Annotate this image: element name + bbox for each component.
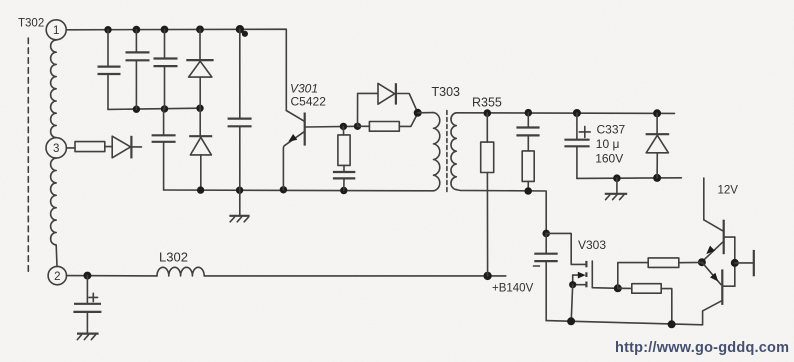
capacitor below mid rail — [152, 109, 176, 190]
wire L302 to B140V — [204, 275, 506, 277]
svg-text:12V: 12V — [718, 185, 739, 197]
svg-text:V303: V303 — [578, 238, 606, 252]
wire secondary bottom to gate node — [456, 190, 546, 234]
svg-text:T303: T303 — [432, 85, 461, 99]
node dot resistor junction — [614, 284, 622, 292]
node dot bottom rail b — [236, 187, 243, 194]
MOSFET V303 gate path — [546, 233, 586, 267]
node dot V301 base b — [354, 123, 361, 130]
resistor at pin 3 — [66, 142, 112, 152]
resistor lower horizontal — [618, 284, 672, 325]
transformer T303 primary winding — [434, 113, 440, 191]
T302 winding upper (pin1 to pin3) — [51, 40, 57, 138]
node dot mid rail c — [196, 105, 203, 112]
node dot T303 primary top — [414, 109, 422, 117]
filter capacitor 3 — [154, 30, 178, 109]
diode secondary rail — [646, 113, 670, 178]
svg-text:2: 2 — [54, 271, 60, 283]
wire to T303 primary — [418, 112, 434, 114]
resistor at V301 base — [338, 126, 350, 171]
node dot secondary top b — [525, 109, 533, 117]
diode D3 (parallel damper) — [378, 83, 418, 112]
diode D1 (upper rectifier) — [186, 29, 213, 108]
node dot secondary top a — [484, 109, 492, 117]
svg-text:http://www.go-gddq.com: http://www.go-gddq.com — [615, 340, 789, 356]
node dot bottom rail c (V301 emitter) — [280, 186, 287, 193]
resistor upper horizontal — [618, 258, 702, 288]
ground symbol 1 — [229, 216, 249, 222]
T302 core dashed line — [27, 38, 29, 273]
ground symbol 3 — [77, 334, 99, 340]
T302 winding lower (pin3 to pin2) — [51, 158, 57, 266]
T302 terminal 1 — [46, 20, 66, 40]
node dot top rail e — [236, 25, 244, 33]
diode D2 (lower rectifier) — [189, 108, 212, 190]
transistor V301 — [283, 111, 357, 190]
svg-text:C337: C337 — [597, 122, 626, 136]
svg-text:C5422: C5422 — [291, 95, 327, 109]
filter capacitor 2 — [126, 30, 150, 110]
MOSFET V303 drain connection — [592, 261, 618, 288]
transistor Q lower — [702, 262, 735, 305]
node dot at B140V — [483, 272, 491, 280]
node dot at diode bottom — [653, 174, 661, 182]
inductor L302 — [157, 267, 204, 276]
12V supply line — [703, 178, 705, 220]
ink blotch dot — [242, 31, 248, 37]
svg-text:3: 3 — [53, 143, 59, 155]
node dot at pin2 — [83, 272, 91, 280]
node dot bases — [731, 259, 739, 267]
capacitor at MOSFET gate branch — [534, 233, 558, 320]
svg-text:+B140V: +B140V — [492, 283, 534, 295]
diode at pin 3 — [112, 136, 141, 159]
node dot at ground stem — [613, 174, 621, 182]
transistor bases tie line — [734, 237, 736, 286]
wire mid rail — [108, 108, 200, 109]
capacitor C337 — [564, 113, 590, 178]
svg-text:T302: T302 — [18, 18, 44, 30]
node dot top rail a — [104, 26, 111, 33]
output terminal — [735, 250, 754, 276]
node dot bottom right a — [567, 317, 575, 325]
resistor parallel with D3 — [358, 113, 418, 131]
node dot emitters — [698, 258, 706, 266]
wire node2 to L302 — [67, 275, 158, 277]
electrolytic capacitor at node 2 — [73, 276, 101, 333]
node dot bottom rail d — [340, 187, 347, 194]
node dot mid rail b — [161, 105, 168, 112]
wire secondary top rail — [456, 112, 674, 115]
wire top rail from pin1 to V301 collector — [66, 29, 286, 110]
node dot bottom right b — [668, 320, 676, 328]
wire bottom rail (primary side) — [164, 189, 434, 192]
svg-text:L302: L302 — [159, 249, 188, 264]
svg-text:160V: 160V — [595, 151, 623, 165]
node dot secondary top c — [573, 109, 581, 117]
filter capacitor 1 — [98, 30, 121, 110]
wire to parallel diode branch — [358, 93, 378, 126]
MOSFET V303 body lead — [573, 282, 587, 288]
capacitor below base resistor — [333, 172, 355, 191]
wire bottom rail right section — [546, 301, 721, 325]
node dot top rail c — [161, 26, 169, 34]
T302 terminal 3 — [46, 138, 66, 158]
wire C337 bottom to diode bottom — [577, 177, 682, 180]
node dot bottom rail a — [197, 186, 204, 193]
node dot secondary top d — [653, 109, 661, 117]
svg-text:10 μ: 10 μ — [596, 137, 620, 151]
transformer T303 secondary winding — [451, 113, 456, 190]
snubber capacitor column — [228, 29, 252, 215]
T302 terminal 2 — [48, 266, 66, 284]
node dot top rail d — [196, 26, 204, 34]
transformer T303 core — [446, 111, 448, 193]
svg-text:R355: R355 — [472, 96, 502, 110]
node dot secondary bottom — [524, 187, 532, 195]
MOSFET V303 source arrow — [573, 272, 587, 285]
transistor Q upper — [702, 220, 735, 262]
resistor secondary column 2 — [522, 151, 534, 191]
ground symbol 2 — [605, 178, 627, 199]
resistor R355 — [481, 113, 494, 276]
node dot V301 base a — [340, 123, 347, 130]
node dot top rail b — [133, 26, 141, 34]
node dot gate branch — [542, 230, 550, 238]
node dot mid rail a — [133, 106, 140, 113]
svg-text:1: 1 — [53, 25, 59, 37]
node dot MOSFET source — [569, 281, 576, 288]
wire MOSFET source down — [571, 285, 573, 322]
svg-text:V301: V301 — [290, 82, 318, 96]
capacitor secondary column 2 — [516, 113, 539, 151]
